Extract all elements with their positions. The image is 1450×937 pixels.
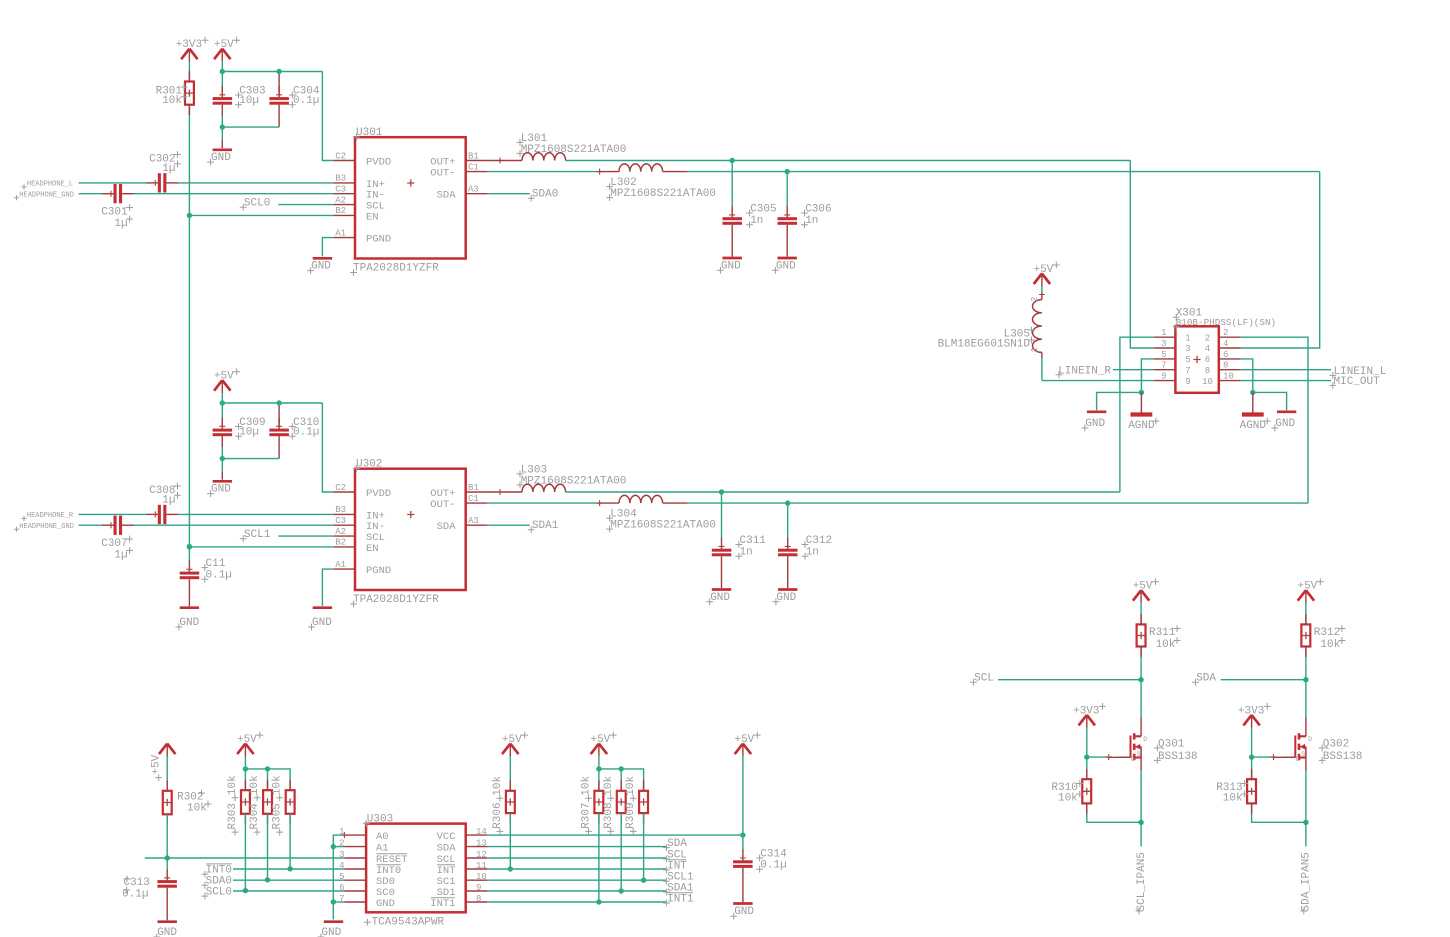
svg-text:B2: B2 — [335, 206, 346, 216]
svg-text:B3: B3 — [335, 505, 346, 515]
svg-text:R303: R303 — [227, 803, 239, 829]
svg-text:2: 2 — [1030, 297, 1040, 302]
svg-text:GND: GND — [776, 592, 796, 604]
svg-text:A2: A2 — [335, 527, 346, 537]
svg-text:+3V3: +3V3 — [1073, 705, 1099, 717]
svg-text:10: 10 — [1223, 372, 1234, 382]
svg-text:12: 12 — [476, 850, 487, 860]
svg-text:1n: 1n — [805, 215, 818, 227]
svg-text:PVDD: PVDD — [366, 156, 391, 168]
svg-text:+5V: +5V — [214, 371, 234, 383]
svg-text:R311: R311 — [1149, 627, 1176, 639]
svg-text:10k: 10k — [249, 775, 261, 795]
svg-text:C314: C314 — [760, 849, 787, 861]
svg-text:SDA: SDA — [1196, 673, 1216, 685]
svg-text:+5V: +5V — [1297, 581, 1317, 593]
svg-text:10k: 10k — [603, 775, 615, 795]
svg-text:1µ: 1µ — [162, 494, 175, 506]
svg-text:B1: B1 — [468, 483, 479, 493]
svg-text:1µ: 1µ — [162, 163, 175, 175]
svg-text:10k: 10k — [1320, 639, 1340, 651]
svg-text:14: 14 — [476, 827, 487, 837]
svg-text:1n: 1n — [740, 547, 753, 559]
svg-text:A1: A1 — [335, 228, 346, 238]
svg-text:9: 9 — [476, 883, 481, 893]
svg-text:A0: A0 — [376, 831, 389, 843]
svg-text:INT: INT — [437, 865, 456, 877]
svg-text:TCA9543APWR: TCA9543APWR — [372, 916, 445, 928]
svg-text:3: 3 — [1161, 339, 1166, 349]
svg-text:9: 9 — [1185, 377, 1190, 387]
svg-text:10µ: 10µ — [239, 95, 259, 107]
svg-text:10k: 10k — [162, 95, 182, 107]
svg-text:10k: 10k — [1058, 793, 1078, 805]
svg-text:1: 1 — [1030, 347, 1040, 352]
svg-text:HEADPHONE_R: HEADPHONE_R — [27, 512, 74, 520]
svg-text:GND: GND — [1275, 418, 1295, 430]
svg-text:1: 1 — [1161, 328, 1166, 338]
svg-text:G: G — [1131, 756, 1135, 763]
svg-text:C1: C1 — [468, 162, 479, 172]
svg-text:B2: B2 — [335, 538, 346, 548]
svg-text:INT0: INT0 — [376, 865, 401, 877]
svg-text:SCL_IPAN5: SCL_IPAN5 — [1136, 852, 1148, 911]
svg-text:R312: R312 — [1314, 627, 1340, 639]
svg-text:9: 9 — [1161, 372, 1166, 382]
svg-text:C2: C2 — [335, 151, 346, 161]
svg-text:A3: A3 — [468, 185, 479, 195]
svg-text:SDA_IPAN5: SDA_IPAN5 — [1301, 852, 1313, 911]
svg-text:10k: 10k — [492, 775, 504, 795]
svg-text:1µ: 1µ — [114, 218, 127, 230]
svg-text:1: 1 — [1185, 333, 1190, 343]
svg-text:HEADPHONE_GND: HEADPHONE_GND — [19, 191, 74, 199]
svg-text:MPZ1608S221ATA00: MPZ1608S221ATA00 — [610, 188, 716, 200]
svg-text:1n: 1n — [806, 547, 819, 559]
svg-text:SDA: SDA — [437, 843, 457, 855]
svg-text:+5V: +5V — [1133, 581, 1153, 593]
svg-text:5: 5 — [1161, 350, 1166, 360]
svg-text:PGND: PGND — [366, 234, 391, 246]
svg-text:TPA2028D1YZFR: TPA2028D1YZFR — [353, 594, 439, 606]
svg-text:LINEIN_R: LINEIN_R — [1058, 365, 1111, 377]
svg-text:INT1: INT1 — [667, 893, 694, 905]
svg-text:SCL0: SCL0 — [206, 887, 232, 899]
svg-text:5: 5 — [1185, 355, 1190, 365]
svg-text:INT: INT — [667, 860, 687, 872]
svg-text:C11: C11 — [206, 558, 226, 570]
svg-text:SDA1: SDA1 — [532, 520, 559, 532]
svg-text:+5V: +5V — [151, 754, 163, 774]
svg-text:HEADPHONE_GND: HEADPHONE_GND — [19, 523, 74, 531]
svg-text:C3: C3 — [335, 185, 346, 195]
svg-text:R305: R305 — [272, 803, 284, 829]
svg-text:U303: U303 — [367, 814, 393, 826]
svg-text:S: S — [1137, 751, 1141, 758]
svg-text:+5V: +5V — [1033, 264, 1053, 276]
svg-text:B10B-PHDSS(LF)(SN): B10B-PHDSS(LF)(SN) — [1176, 317, 1276, 328]
svg-text:AGND: AGND — [1240, 420, 1267, 432]
svg-text:PVDD: PVDD — [366, 488, 391, 500]
svg-text:C311: C311 — [740, 535, 767, 547]
svg-text:+5V: +5V — [502, 734, 522, 746]
svg-text:C305: C305 — [750, 204, 776, 216]
svg-text:R308: R308 — [603, 802, 615, 828]
svg-text:3: 3 — [1185, 344, 1190, 354]
svg-text:D: D — [1143, 736, 1147, 743]
svg-text:4: 4 — [1205, 344, 1210, 354]
svg-text:SDA0: SDA0 — [532, 189, 558, 201]
svg-text:BLM18EG601SN1D: BLM18EG601SN1D — [938, 339, 1031, 351]
svg-text:+3V3: +3V3 — [176, 39, 202, 51]
svg-text:HEADPHONE_L: HEADPHONE_L — [27, 181, 73, 189]
svg-text:GND: GND — [734, 906, 754, 918]
svg-text:U302: U302 — [356, 459, 382, 471]
svg-text:GND: GND — [157, 927, 177, 937]
svg-text:D: D — [1308, 736, 1312, 743]
svg-text:SCL1: SCL1 — [244, 529, 271, 541]
svg-text:7: 7 — [1185, 366, 1190, 376]
svg-text:R307: R307 — [581, 802, 593, 828]
svg-text:Q302: Q302 — [1323, 739, 1349, 751]
svg-text:+5V: +5V — [237, 734, 257, 746]
svg-text:8: 8 — [1223, 361, 1228, 371]
svg-text:INT1: INT1 — [430, 898, 455, 910]
svg-text:+5V: +5V — [214, 39, 234, 51]
svg-text:MPZ1608S221ATA00: MPZ1608S221ATA00 — [521, 475, 627, 487]
svg-text:C306: C306 — [805, 204, 831, 216]
svg-text:10k: 10k — [625, 775, 637, 795]
svg-text:GND: GND — [721, 260, 741, 272]
svg-text:10k: 10k — [1223, 793, 1243, 805]
svg-text:GND: GND — [211, 484, 231, 496]
svg-text:GND: GND — [311, 261, 331, 273]
svg-text:A1: A1 — [376, 843, 389, 855]
svg-text:6: 6 — [1205, 355, 1210, 365]
svg-text:Q301: Q301 — [1158, 739, 1185, 751]
svg-text:R304: R304 — [249, 803, 261, 830]
svg-text:C3: C3 — [335, 516, 346, 526]
svg-text:C307: C307 — [101, 538, 127, 550]
svg-text:8: 8 — [1205, 366, 1210, 376]
svg-text:C312: C312 — [806, 535, 832, 547]
svg-text:6: 6 — [1223, 350, 1228, 360]
svg-text:8: 8 — [476, 894, 481, 904]
svg-text:MPZ1608S221ATA00: MPZ1608S221ATA00 — [521, 144, 627, 156]
svg-text:7: 7 — [1161, 361, 1166, 371]
svg-text:10µ: 10µ — [239, 427, 259, 439]
svg-text:SDA: SDA — [437, 521, 457, 533]
svg-text:+3V3: +3V3 — [1238, 705, 1264, 717]
svg-text:10: 10 — [1202, 377, 1213, 387]
svg-text:B1: B1 — [468, 151, 479, 161]
svg-text:R306: R306 — [492, 802, 504, 828]
svg-text:INT0: INT0 — [206, 865, 232, 877]
svg-text:AGND: AGND — [1128, 420, 1155, 432]
svg-text:0.1µ: 0.1µ — [293, 95, 319, 107]
svg-text:U301: U301 — [356, 127, 383, 139]
svg-text:+5V: +5V — [590, 734, 610, 746]
svg-text:1n: 1n — [750, 215, 763, 227]
svg-text:+5V: +5V — [734, 734, 754, 746]
svg-text:A3: A3 — [468, 516, 479, 526]
svg-text:PGND: PGND — [366, 565, 391, 577]
svg-text:GND: GND — [179, 617, 199, 629]
svg-text:13: 13 — [476, 838, 487, 848]
svg-text:SDA: SDA — [437, 190, 457, 202]
svg-text:GND: GND — [776, 260, 796, 272]
svg-text:OUT-: OUT- — [430, 168, 455, 180]
svg-text:BSS138: BSS138 — [1323, 751, 1363, 763]
svg-text:C2: C2 — [335, 483, 346, 493]
svg-text:G: G — [1296, 756, 1300, 763]
svg-text:SCL0: SCL0 — [244, 198, 270, 210]
svg-text:10k: 10k — [272, 775, 284, 795]
svg-text:GND: GND — [321, 927, 341, 937]
svg-text:2: 2 — [1205, 333, 1210, 343]
svg-text:GND: GND — [710, 592, 730, 604]
svg-text:2: 2 — [1223, 328, 1228, 338]
svg-text:10k: 10k — [1156, 639, 1176, 651]
svg-text:C1: C1 — [468, 494, 479, 504]
svg-text:BSS138: BSS138 — [1158, 751, 1198, 763]
svg-text:10k: 10k — [581, 775, 593, 795]
svg-text:GND: GND — [211, 152, 231, 164]
svg-text:1µ: 1µ — [114, 550, 127, 562]
svg-text:EN: EN — [366, 211, 379, 223]
svg-text:0.1µ: 0.1µ — [293, 427, 319, 439]
svg-text:SCL: SCL — [974, 673, 994, 685]
svg-text:0.1µ: 0.1µ — [206, 570, 232, 582]
svg-text:10: 10 — [476, 872, 487, 882]
svg-text:10k: 10k — [187, 803, 207, 815]
svg-text:S: S — [1301, 751, 1305, 758]
svg-text:VCC: VCC — [437, 831, 456, 843]
svg-text:TPA2028D1YZFR: TPA2028D1YZFR — [353, 262, 439, 274]
svg-text:MIC_OUT: MIC_OUT — [1334, 376, 1381, 388]
svg-text:10k: 10k — [227, 775, 239, 795]
svg-text:EN: EN — [366, 543, 379, 555]
svg-text:SDA: SDA — [667, 838, 687, 850]
svg-text:GND: GND — [1085, 418, 1105, 430]
svg-text:0.1µ: 0.1µ — [760, 860, 786, 872]
svg-text:A2: A2 — [335, 195, 346, 205]
svg-text:R309: R309 — [625, 802, 637, 828]
svg-text:MPZ1608S221ATA00: MPZ1608S221ATA00 — [610, 520, 716, 532]
svg-text:GND: GND — [312, 617, 332, 629]
svg-text:GND: GND — [376, 898, 395, 910]
svg-text:B3: B3 — [335, 174, 346, 184]
svg-text:OUT-: OUT- — [430, 499, 455, 511]
svg-text:4: 4 — [1223, 339, 1228, 349]
svg-text:C301: C301 — [101, 207, 128, 219]
svg-text:A1: A1 — [335, 560, 346, 570]
svg-text:11: 11 — [476, 861, 487, 871]
